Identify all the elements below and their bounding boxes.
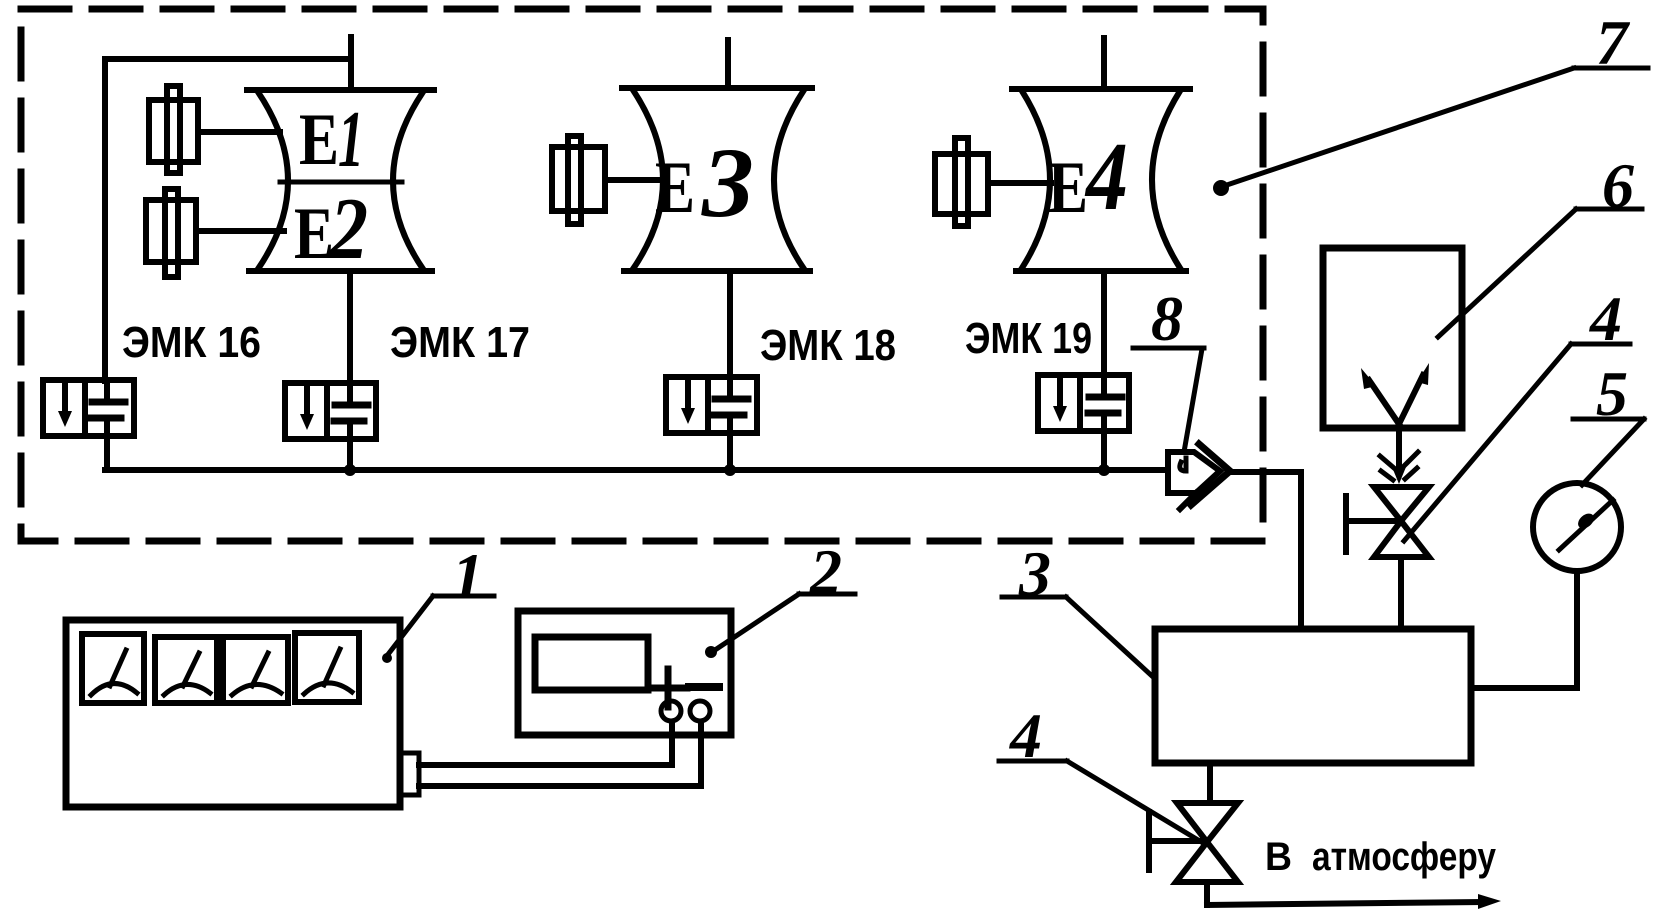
display of box 2 bbox=[535, 637, 648, 690]
plus terminal mark bbox=[649, 669, 687, 707]
tank E3 bbox=[622, 88, 812, 271]
wire: box 6 down to valve 4 with arrow and ticks bbox=[1380, 424, 1418, 484]
meter 3 bbox=[223, 637, 288, 703]
svg-text:В: В bbox=[1265, 835, 1292, 879]
valve 4 (lower) bbox=[1149, 803, 1238, 882]
wire: tank E4 bottom to valve ЭМК19 bbox=[1101, 271, 1107, 376]
outlet wire to atmosphere bbox=[1207, 882, 1501, 909]
callout 6 bbox=[1438, 150, 1642, 337]
sensor at E3 bbox=[552, 136, 662, 224]
valve ЭМК16 bbox=[43, 380, 134, 436]
wire: valve 4 to box 3 bbox=[1398, 557, 1404, 629]
callout 1 bbox=[382, 540, 494, 663]
meter 4 bbox=[295, 633, 359, 702]
callout 5 bbox=[1573, 358, 1644, 485]
wire: tank E4 top stub bbox=[1101, 38, 1107, 89]
junction at ЭМК19 bbox=[1098, 464, 1110, 476]
svg-text:атмосферу: атмосферу bbox=[1312, 835, 1497, 879]
tank E4 bbox=[1012, 89, 1190, 271]
cable: box 1 to box 2 bbox=[419, 722, 701, 786]
svg-text:E: E bbox=[294, 193, 334, 275]
svg-text:2: 2 bbox=[328, 181, 368, 278]
wire: tank E1/E2 top stub bbox=[348, 37, 354, 90]
svg-text:3: 3 bbox=[701, 127, 754, 238]
wire: box 3 to gauge bbox=[1471, 571, 1577, 688]
valve ЭМК17 bbox=[285, 383, 376, 439]
callout 7 bbox=[1213, 7, 1648, 196]
wire: valve ЭМК16 to manifold bbox=[104, 436, 110, 470]
svg-text:1: 1 bbox=[338, 96, 364, 184]
exhaust arrows inside box 6 bbox=[1361, 363, 1429, 424]
svg-text:E: E bbox=[1048, 147, 1088, 229]
wire: top feeder to tank E1 bbox=[105, 56, 351, 62]
sensor at E1 bbox=[149, 86, 280, 173]
sensor at E2 bbox=[146, 189, 284, 277]
box 3 bbox=[1155, 629, 1471, 763]
wire: box 3 to valve 4 (lower) bbox=[1207, 763, 1213, 803]
label E4 bbox=[1048, 123, 1128, 231]
minus terminal mark bbox=[689, 683, 719, 691]
wire: valve ЭМК19 to manifold bbox=[1101, 431, 1107, 470]
label E3 bbox=[655, 127, 754, 238]
svg-text:8: 8 bbox=[1151, 283, 1183, 354]
manifold wire bbox=[105, 467, 1167, 473]
valve ЭМК18 bbox=[666, 377, 757, 433]
junction at ЭМК18 bbox=[724, 464, 736, 476]
dashed enclosure (tested unit boundary) bbox=[21, 9, 1263, 541]
callout 4 (upper) bbox=[1404, 283, 1630, 541]
box 1 (indicator unit) bbox=[66, 620, 419, 807]
label E2 bbox=[294, 181, 368, 278]
svg-text:ЭМК 18: ЭМК 18 bbox=[760, 321, 896, 370]
svg-text:ЭМК 19: ЭМК 19 bbox=[965, 314, 1092, 363]
connector 8 (quick-disconnect coupling) bbox=[1168, 444, 1230, 509]
meter 2 bbox=[155, 637, 217, 703]
label В атмосферу bbox=[1265, 835, 1497, 879]
svg-text:ЭМК 17: ЭМК 17 bbox=[390, 318, 530, 367]
svg-text:E: E bbox=[299, 99, 339, 181]
callout 2 bbox=[705, 536, 855, 658]
svg-text:1: 1 bbox=[452, 540, 484, 611]
wire: valve ЭМК17 to manifold bbox=[347, 439, 353, 470]
wire: valve ЭМК18 to manifold bbox=[727, 433, 733, 470]
callout 3 bbox=[1002, 538, 1152, 676]
gauge 5 bbox=[1533, 483, 1621, 571]
valve ЭМК19 bbox=[1038, 375, 1129, 431]
callout 8 bbox=[1133, 283, 1204, 452]
meter 1 bbox=[82, 634, 144, 703]
box 6 bbox=[1323, 248, 1462, 428]
wire: tank E3 bottom to valve ЭМК18 bbox=[727, 271, 733, 378]
terminal sockets bbox=[661, 701, 710, 721]
wire: left branch down to valve ЭМК16 bbox=[102, 59, 108, 381]
junction at ЭМК17 bbox=[344, 464, 356, 476]
label E1 bbox=[299, 96, 364, 184]
box 2 (power supply) bbox=[518, 611, 731, 735]
wire: tank E1/E2 bottom to valve ЭМК17 bbox=[347, 271, 353, 384]
tank E1/E2 bbox=[247, 90, 434, 271]
callout 4 (lower) bbox=[999, 700, 1203, 843]
svg-text:4: 4 bbox=[1084, 123, 1128, 231]
wire: tank E3 top stub bbox=[725, 40, 731, 88]
sensor at E4 bbox=[935, 138, 1051, 226]
wire: connector to box 3 bbox=[1231, 472, 1301, 629]
svg-text:E: E bbox=[655, 147, 695, 229]
valve 4 (upper) bbox=[1346, 487, 1429, 557]
svg-text:ЭМК 16: ЭМК 16 bbox=[122, 318, 261, 367]
